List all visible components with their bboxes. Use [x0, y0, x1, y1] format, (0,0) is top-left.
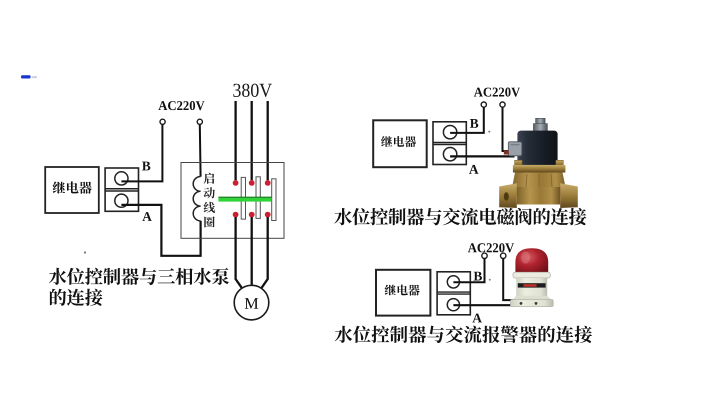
contact bar 3: [272, 179, 276, 221]
relay terminal block (bottom right): [437, 272, 470, 315]
label B (top right): [470, 119, 478, 128]
AC220V terminal R1: [481, 102, 486, 107]
terminal screw A (left): [115, 194, 128, 207]
AC220V terminal L2: [197, 119, 202, 124]
solenoid valve photo: [499, 118, 578, 208]
contact bar 2: [256, 177, 260, 219]
wire motor U: [236, 217, 244, 291]
contact dot bottom V: [249, 212, 255, 218]
speck near bottom-right wire: [489, 279, 491, 281]
label 380V: [233, 84, 272, 98]
contact dot bottom W: [265, 212, 271, 218]
wire AC220V R4 to alarm: [503, 259, 513, 301]
contactor box: [181, 163, 284, 239]
wire B to AC220V (bottom right): [453, 259, 484, 283]
wire B to AC220V (top right): [450, 107, 484, 132]
wire A to coil bottom (left): [121, 205, 200, 256]
label AC220V (bottom right): [468, 243, 514, 252]
blue dash mark top-left: [21, 75, 37, 78]
relay terminal block (top right): [433, 122, 466, 165]
terminal screw A (bottom right): [447, 299, 459, 311]
caption: 水位控制器与交流电磁阀的连接: [334, 208, 586, 225]
relay box 继电器 (left): [45, 167, 99, 213]
caption: 水位控制器与交流报警器的连接: [335, 326, 592, 343]
relay box 继电器 (top right): [373, 120, 427, 167]
wire 380V phase U: [234, 101, 236, 180]
relay box 继电器 (bottom right): [376, 270, 430, 316]
contact bar 1: [241, 177, 245, 219]
alarm beacon photo: [510, 248, 553, 306]
green crossbar: [218, 197, 271, 202]
wire A to valve: [450, 155, 514, 157]
wire A to alarm: [453, 304, 514, 306]
speck near left caption: [84, 251, 86, 253]
caption: 的连接: [50, 289, 103, 306]
AC220V terminal R2: [500, 102, 505, 107]
coil winding (3 arcs): [193, 177, 200, 221]
contact dot bottom U: [233, 212, 239, 218]
label AC220V (left): [158, 101, 204, 110]
terminal screw A (top right): [443, 148, 456, 161]
AC220V terminal L1: [160, 119, 165, 124]
contact dot top W: [265, 180, 271, 186]
label B (left): [142, 162, 150, 171]
wire 380V phase V: [251, 101, 253, 180]
label 启动线圈 (vertical): [204, 173, 215, 228]
motor M: [234, 285, 269, 320]
label A (left): [142, 212, 152, 221]
label A (bottom right): [472, 314, 482, 323]
wire 380V phase W: [267, 101, 269, 180]
contact dot top U: [233, 180, 239, 186]
caption: 水位控制器与三相水泵: [49, 268, 229, 285]
AC220V terminal R4: [501, 253, 506, 258]
label B (bottom right): [474, 272, 482, 281]
speck near top-right AC220V: [488, 131, 490, 133]
relay terminal block (left): [105, 168, 138, 211]
terminal screw B (left): [115, 172, 128, 185]
wire AC220V R2 to valve: [503, 107, 513, 151]
wire AC220V L2 down to coil: [199, 125, 202, 177]
wire B to AC220V (left): [121, 125, 162, 182]
label AC220V (top right): [474, 88, 520, 97]
AC220V terminal R3: [482, 253, 487, 258]
terminal screw B (bottom right): [447, 276, 459, 288]
contact dot top V: [249, 180, 255, 186]
wire motor W: [260, 217, 268, 291]
wire motor V: [251, 217, 253, 285]
terminal screw B (top right): [443, 126, 456, 139]
label A (top right): [469, 165, 479, 174]
